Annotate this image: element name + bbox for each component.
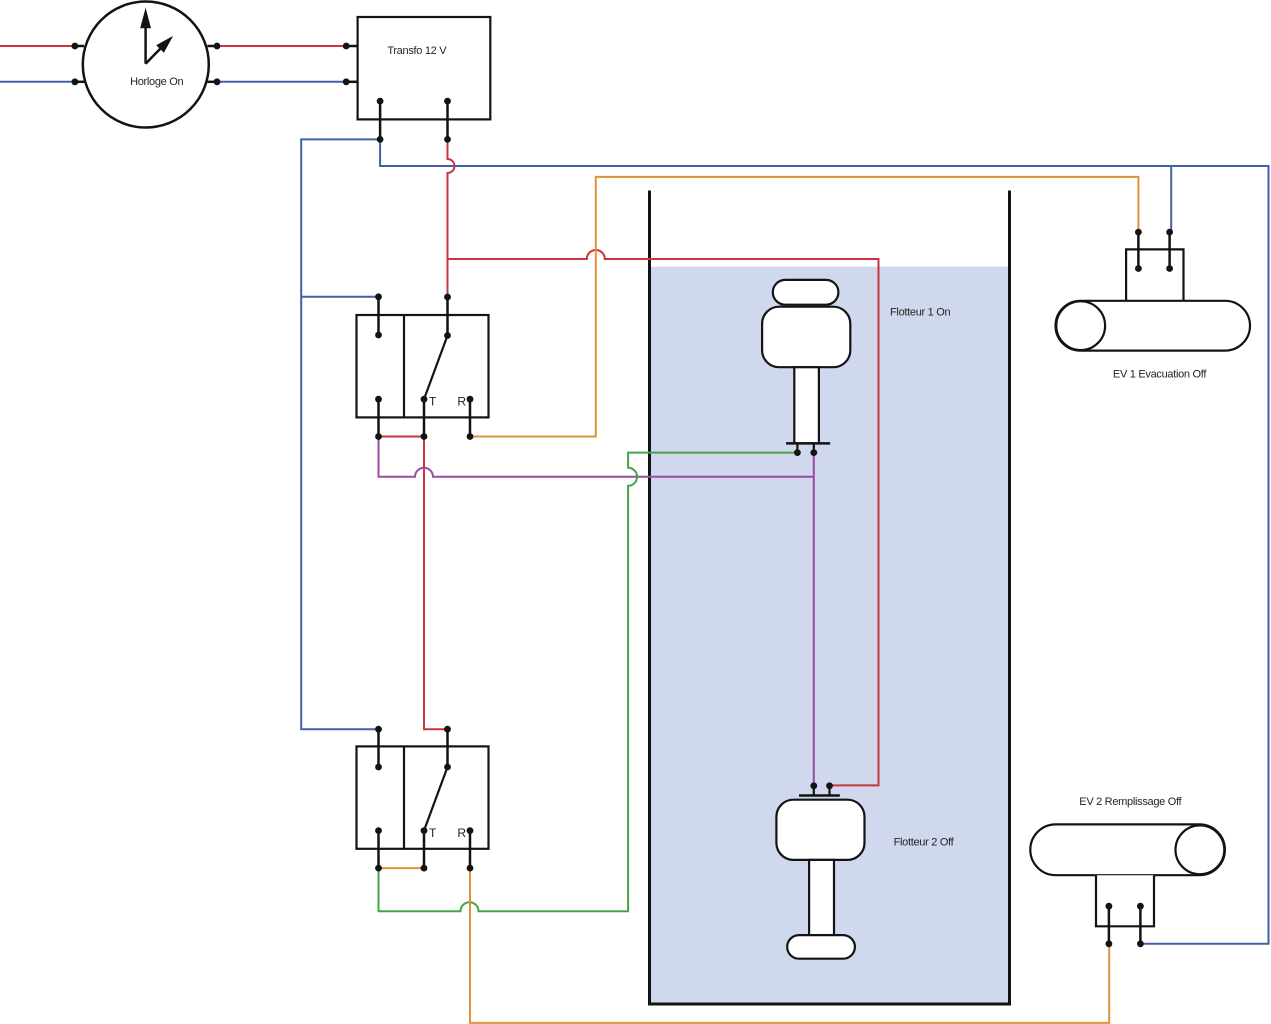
solenoid valve EV2 coil box (1096, 875, 1154, 926)
relay K2 divider (403, 746, 405, 848)
relay K1 coil bottom pin (377, 399, 380, 436)
wire blue neutral from left edge to clock (0, 81, 75, 83)
node transformer blue input (343, 78, 350, 85)
wire red 12V net: transfo right terminal down with hop over blue (448, 139, 455, 259)
node float2 right pin (826, 782, 833, 789)
node float1 right pin (810, 449, 817, 456)
clock hour hand (146, 36, 174, 64)
node relay K2 coil top inner (375, 764, 382, 771)
wire green flotteur1 left pin to left, down with hop over purple, to relay2, up to coil bottom (379, 453, 798, 912)
node relay K2 common outer (444, 726, 451, 733)
node clock left red (72, 43, 79, 50)
node relay K2 coil bottom outer (375, 865, 382, 872)
transformer secondary right pin (446, 101, 449, 139)
relay K2 switch common pin (446, 729, 449, 767)
wire red clock to transfo (217, 45, 346, 47)
wire blue clock to transfo (217, 81, 346, 83)
float switch 2 left pin (813, 786, 815, 796)
float switch 1 base bar (786, 442, 830, 445)
wire red down to relay 1 switch common (447, 259, 449, 297)
node relay K2 T contact (421, 827, 428, 834)
relay K2 box (357, 746, 489, 848)
svg-text:Flotteur 2 Off: Flotteur 2 Off (894, 837, 955, 849)
clock left blue terminal stub (75, 81, 84, 84)
float switch 1 right pin (813, 443, 815, 452)
valve EV1 right terminal pin (1168, 232, 1171, 268)
valve EV2 right terminal pin (1139, 906, 1142, 944)
node relay K1 common pivot (444, 332, 451, 339)
float switch 2 body (776, 800, 864, 860)
tank left wall (648, 191, 651, 1005)
node relay K2 coil top outer (375, 726, 382, 733)
relay K1 R contact pin (469, 399, 472, 436)
node relay K1 coil top inner (375, 332, 382, 339)
node EV1 left inner (1135, 265, 1142, 272)
node EV2 right inner (1137, 903, 1144, 910)
relay K1 switch common pin (446, 297, 449, 336)
float switch 2 top bar (799, 794, 840, 797)
svg-text:EV 2 Remplissage Off: EV 2 Remplissage Off (1079, 796, 1182, 808)
relay K2 coil top pin (377, 729, 380, 767)
wire red horizontal into tank with hop over orange, down to flotteur 2 right pin (448, 250, 879, 785)
float switch 1 body (762, 307, 850, 368)
valve EV1 left terminal pin (1137, 232, 1140, 268)
float switch 1 top cap (773, 280, 839, 305)
valve EV1 body cylinder (1056, 301, 1251, 351)
node EV2 left inner (1106, 903, 1113, 910)
node relay K2 T outer (421, 865, 428, 872)
valve EV1 end circle (1056, 301, 1105, 350)
wire orange relay2 coil bottom to T contact (379, 867, 425, 869)
node clock right red (214, 43, 221, 50)
node EV2 left terminal (1106, 940, 1113, 947)
node relay K1 R contact (467, 396, 474, 403)
svg-text:Flotteur 1 On: Flotteur 1 On (890, 307, 950, 319)
float switch 2 right pin (828, 786, 830, 796)
node transformer red input (343, 43, 350, 50)
relay K2 switch blade (424, 767, 448, 831)
node EV1 right terminal (1166, 229, 1173, 236)
float switch 1 stem (794, 367, 819, 443)
relay K1 T contact pin (423, 399, 426, 436)
relay K2 R contact pin (469, 831, 472, 869)
wire blue top bus to right side and down to EV2 (380, 139, 1268, 943)
wire red relay1 T down to relay 2 switch common (424, 437, 448, 730)
node relay K1 R outer (467, 433, 474, 440)
clock minute hand (140, 8, 151, 64)
node EV1 right inner (1166, 265, 1173, 272)
valve EV2 left terminal pin (1108, 906, 1111, 944)
transformer secondary left pin (379, 101, 382, 139)
node EV1 left terminal (1135, 229, 1142, 236)
node clock right blue (214, 78, 221, 85)
node float1 left pin (794, 449, 801, 456)
float switch 1 left pin (796, 443, 798, 452)
wire blue branch to relay 1 coil top (301, 296, 378, 298)
clock right blue terminal stub (208, 81, 218, 84)
node relay K2 common pivot (444, 764, 451, 771)
wire purple float column: flotteur1 right pin down to flotteur2 left pin (813, 453, 815, 786)
relay K1 coil top pin (377, 297, 380, 335)
wire blue 12V net: transfo left terminal to left bus down to relay 2 coil (301, 139, 380, 729)
transformer left red input stub (346, 45, 357, 48)
wire orange relay1 R contact up and over to EV1 left terminal (470, 177, 1138, 437)
node relay K2 R outer (467, 865, 474, 872)
node EV2 right terminal (1137, 940, 1144, 947)
node relay K1 common outer (444, 294, 451, 301)
float switch 2 bottom cap (787, 935, 855, 959)
wire purple relay1 coil bottom to float column with hop over red (379, 437, 814, 477)
node transformer secondary left outer (377, 136, 384, 143)
tank water (651, 267, 1008, 1003)
relay K1 box (357, 315, 489, 417)
node transformer secondary left inner (377, 98, 384, 105)
tank right wall (1008, 191, 1011, 1005)
node float2 left pin (810, 782, 817, 789)
float switch 2 stem (809, 860, 834, 936)
wire red phase from left edge to clock (0, 45, 75, 47)
wire blue branch down to EV1 right terminal (1170, 166, 1172, 232)
svg-text:EV 1 Evacuation Off: EV 1 Evacuation Off (1113, 369, 1207, 381)
valve EV2 end circle (1176, 825, 1225, 874)
tank bottom wall (648, 1003, 1011, 1006)
node transformer secondary right inner (444, 98, 451, 105)
clock Horloge circle (83, 2, 209, 128)
solenoid valve EV1 coil box (1126, 249, 1183, 300)
node relay K2 coil bottom inner (375, 827, 382, 834)
svg-text:Horloge On: Horloge On (130, 76, 183, 88)
svg-text:R: R (457, 395, 466, 409)
wire orange relay2 R contact down along bottom to EV2 left terminal (470, 868, 1109, 1023)
node relay K1 coil bottom outer (375, 433, 382, 440)
transformer Transfo 12 V box (358, 17, 491, 119)
wire red relay1 coil bottom to T contact (379, 436, 425, 438)
relay K2 coil bottom pin (377, 831, 380, 869)
svg-text:T: T (429, 395, 437, 409)
node relay K2 R contact (467, 827, 474, 834)
relay K1 switch blade (424, 336, 448, 400)
transformer left blue input stub (346, 81, 357, 84)
relay K1 divider (403, 315, 405, 417)
node transformer secondary right outer (444, 136, 451, 143)
node relay K1 T outer (421, 433, 428, 440)
svg-text:R: R (457, 826, 466, 840)
valve EV2 body cylinder (1030, 824, 1225, 875)
clock left red terminal stub (75, 45, 84, 48)
clock right red terminal stub (208, 45, 218, 48)
node relay K1 coil top outer (375, 293, 382, 300)
svg-text:T: T (429, 826, 437, 840)
node relay K1 T contact (421, 396, 428, 403)
relay K2 T contact pin (423, 831, 426, 869)
node relay K1 coil bottom inner (375, 396, 382, 403)
node clock left blue (72, 78, 79, 85)
svg-text:Transfo 12 V: Transfo 12 V (387, 45, 447, 57)
